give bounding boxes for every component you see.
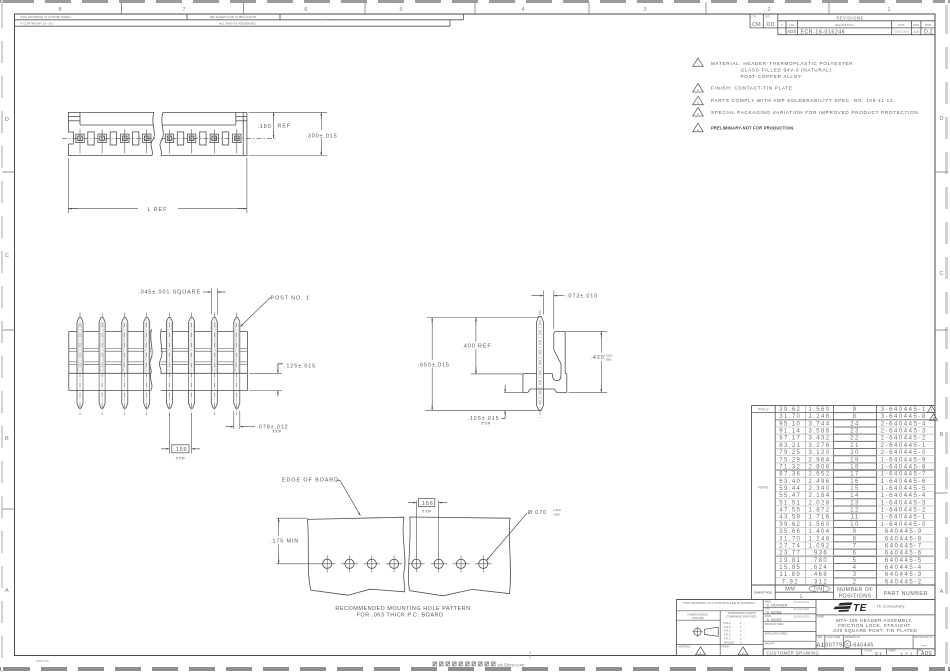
end view base with U slot <box>523 373 537 375</box>
svg-text:2: 2 <box>853 579 858 585</box>
svg-text:14: 14 <box>850 493 859 499</box>
svg-text:3 PLC: 3 PLC <box>724 633 731 637</box>
svg-text:wk.58mx.com: wk.58mx.com <box>498 662 525 667</box>
svg-text:.400 REF: .400 REF <box>462 344 492 350</box>
note 1 triangle <box>693 58 704 67</box>
svg-text:21: 21 <box>850 443 859 449</box>
svg-text:C: C <box>5 253 9 259</box>
svg-text:.156: .156 <box>420 501 434 507</box>
svg-text:640445-4: 640445-4 <box>885 565 923 571</box>
svg-text:TE Connectivity: TE Connectivity <box>877 605 905 609</box>
svg-text:FOR .063 THICK P.C. BOARD: FOR .063 THICK P.C. BOARD <box>357 613 444 619</box>
svg-text:2.184: 2.184 <box>808 493 830 499</box>
svg-text:2 PLC: 2 PLC <box>724 629 731 633</box>
svg-text:DIST: DIST <box>765 17 771 19</box>
svg-text:5: 5 <box>931 409 933 412</box>
svg-text:Ø.070: Ø.070 <box>528 510 547 516</box>
svg-text:2: 2 <box>742 651 744 655</box>
svg-text:3.432: 3.432 <box>808 436 830 442</box>
svg-text:39.62: 39.62 <box>779 522 801 528</box>
svg-text:MATERIAL: MATERIAL <box>679 645 691 648</box>
dimension .180 REF <box>249 111 328 113</box>
svg-text:5: 5 <box>697 128 699 132</box>
dimension .425 with tolerance <box>565 330 607 332</box>
svg-text:GLASS-FILLED 94V-0 (NATURAL): GLASS-FILLED 94V-0 (NATURAL) <box>741 68 832 73</box>
watermark <box>433 661 438 666</box>
svg-text:TYP: TYP <box>176 456 186 461</box>
svg-text:1.872: 1.872 <box>808 508 830 514</box>
svg-text:11.89: 11.89 <box>780 572 802 578</box>
svg-text:2-640445-3: 2-640445-3 <box>881 429 927 435</box>
bottom zone tick <box>529 651 531 659</box>
svg-text:1-640445-9: 1-640445-9 <box>881 457 927 463</box>
svg-text:NUMBER OF: NUMBER OF <box>837 587 873 593</box>
svg-text:35.66: 35.66 <box>779 529 801 535</box>
svg-text:1-640445-7: 1-640445-7 <box>881 472 927 478</box>
svg-text:POST-COPPER ALLOY: POST-COPPER ALLOY <box>741 74 802 79</box>
svg-text:NONE: NONE <box>758 486 769 490</box>
svg-text:51.51: 51.51 <box>779 500 801 506</box>
svg-text:.780: .780 <box>811 558 828 564</box>
svg-text:2: 2 <box>767 7 770 13</box>
svg-text:3-640445-1: 3-640445-1 <box>881 407 927 413</box>
note 5 triangle <box>693 123 704 132</box>
svg-text:+.010: +.010 <box>553 508 561 512</box>
dimension .125+-.015 TYP tail <box>504 391 524 393</box>
svg-text:.300±.015: .300±.015 <box>305 133 337 139</box>
svg-text:640445-3: 640445-3 <box>885 572 923 578</box>
svg-text:15.85: 15.85 <box>779 565 801 571</box>
controlled document row <box>676 610 763 612</box>
svg-text:17: 17 <box>850 472 859 478</box>
svg-text:1-640445-4: 1-640445-4 <box>881 493 927 499</box>
svg-text:67.36: 67.36 <box>779 472 801 478</box>
dimension .300+-.015 <box>249 155 328 157</box>
svg-text:RELEASED FOR PUBLICATION: RELEASED FOR PUBLICATION <box>210 15 256 19</box>
svg-text:1.248: 1.248 <box>808 414 830 420</box>
top view right end wall <box>242 112 244 155</box>
approvals column <box>763 606 816 608</box>
title block frame <box>675 600 677 656</box>
side view body edges <box>68 332 70 374</box>
svg-text:13: 13 <box>850 500 859 506</box>
svg-text:L REF: L REF <box>148 207 168 213</box>
svg-text:TYP: TYP <box>422 509 432 514</box>
svg-text:87.17: 87.17 <box>779 436 801 442</box>
svg-text:C: C <box>846 642 850 647</box>
svg-text:5:1: 5:1 <box>875 651 882 656</box>
svg-text:75.29: 75.29 <box>779 457 801 463</box>
svg-text:±: ± <box>740 630 742 633</box>
svg-text:DRAWING NO: DRAWING NO <box>845 636 860 639</box>
svg-text:D.Z: D.Z <box>924 30 933 36</box>
svg-text:39.62: 39.62 <box>779 407 801 413</box>
svg-text:1.248: 1.248 <box>808 536 830 542</box>
dimension .175 MIN <box>276 517 308 519</box>
svg-text:-: - <box>745 630 746 633</box>
dimension .078+-.012 TYP <box>233 411 235 429</box>
note 2 triangle <box>693 84 704 93</box>
size cage drawing row <box>816 634 935 636</box>
svg-text:10: 10 <box>850 522 859 528</box>
svg-text:3: 3 <box>697 101 699 105</box>
svg-text:640445-9: 640445-9 <box>885 529 923 535</box>
svg-text:3.588: 3.588 <box>808 429 830 435</box>
svg-text:CM: CM <box>752 22 761 28</box>
top view body left part <box>68 112 154 155</box>
dimension .400 REF <box>471 373 523 375</box>
svg-text:640445-8: 640445-8 <box>885 536 923 542</box>
svg-text:00779: 00779 <box>825 642 842 648</box>
svg-text:RESTRICTED TO: RESTRICTED TO <box>914 637 933 639</box>
svg-text:RECOMMENDED MOUNTING HOLE P: RECOMMENDED MOUNTING HOLE PATTERN <box>335 606 470 612</box>
svg-text:3-640445-8: 3-640445-8 <box>881 414 927 420</box>
svg-text:S. BOSS: S. BOSS <box>767 610 783 614</box>
svg-text:OTHERWISE SPECIFIED:: OTHERWISE SPECIFIED: <box>726 614 757 618</box>
svg-text:63.40: 63.40 <box>779 479 801 485</box>
svg-text:POSITIONS: POSITIONS <box>839 594 872 600</box>
svg-text:3.120: 3.120 <box>808 450 830 456</box>
top view cavities <box>88 132 94 145</box>
dimension L REF <box>67 158 69 213</box>
svg-text:.312: .312 <box>811 579 828 585</box>
svg-text:1: 1 <box>700 651 702 655</box>
svg-text:WEIGHT: WEIGHT <box>765 642 775 645</box>
svg-text:A1: A1 <box>816 642 825 649</box>
svg-text:2.808: 2.808 <box>808 464 830 470</box>
svg-text:19: 19 <box>850 457 859 463</box>
svg-text:-: - <box>745 626 746 629</box>
svg-text:640445-6: 640445-6 <box>885 551 923 557</box>
svg-text:83.21: 83.21 <box>779 443 801 449</box>
revisions block <box>749 14 751 28</box>
svg-text:1 PLC: 1 PLC <box>724 625 731 629</box>
svg-text:91.14: 91.14 <box>779 429 801 435</box>
svg-text:DD: DD <box>766 22 774 28</box>
svg-text:APPLICATION SPEC: APPLICATION SPEC <box>765 633 788 636</box>
svg-text:19.81: 19.81 <box>779 558 801 564</box>
svg-text:.936: .936 <box>811 551 828 557</box>
svg-text:7: 7 <box>853 543 858 549</box>
svg-text:LTR: LTR <box>752 17 757 19</box>
svg-text:PRODUCT SPEC: PRODUCT SPEC <box>765 623 784 626</box>
svg-text:±: ± <box>740 622 742 625</box>
svg-text:±: ± <box>740 634 742 637</box>
svg-text:11: 11 <box>851 515 860 521</box>
svg-text:SIZE: SIZE <box>817 637 823 639</box>
svg-text:71.32: 71.32 <box>779 464 801 470</box>
svg-text:.156: .156 <box>173 447 187 453</box>
svg-text:55.47: 55.47 <box>779 493 801 499</box>
svg-text:-.000: -.000 <box>553 512 561 516</box>
svg-text:5: 5 <box>853 558 858 564</box>
svg-text:7: 7 <box>182 7 185 13</box>
side view base <box>69 372 151 374</box>
svg-text:DWN: DWN <box>913 24 919 27</box>
svg-text:43.59: 43.59 <box>779 515 801 521</box>
svg-text:-: - <box>745 641 746 644</box>
svg-text:TYP: TYP <box>481 421 491 426</box>
svg-text:POST NO. 1: POST NO. 1 <box>271 296 310 302</box>
svg-text:6: 6 <box>853 551 858 557</box>
svg-text:.425: .425 <box>591 355 605 361</box>
svg-text:-640445: -640445 <box>851 642 874 648</box>
svg-text:22: 22 <box>850 436 859 442</box>
end view post <box>537 316 544 322</box>
svg-text:DATE: DATE <box>898 24 905 27</box>
svg-text:D: D <box>5 117 9 123</box>
svg-text:4: 4 <box>853 565 858 571</box>
svg-text:23.77: 23.77 <box>779 551 801 557</box>
svg-text:6: 6 <box>304 7 307 13</box>
note 3 triangle <box>693 96 704 105</box>
svg-text:01-NOV-2002: 01-NOV-2002 <box>794 608 810 611</box>
svg-text:A: A <box>940 589 944 595</box>
svg-text:1: 1 <box>697 63 699 67</box>
svg-text:ANGLES: ANGLES <box>724 640 735 644</box>
svg-text:B: B <box>5 436 9 442</box>
svg-text:8: 8 <box>853 536 858 542</box>
svg-text:9: 9 <box>853 407 858 413</box>
svg-text:SHEET: SHEET <box>888 651 896 653</box>
projection symbol <box>694 628 701 635</box>
svg-text:S. BOSS: S. BOSS <box>767 618 783 622</box>
zone ticks left <box>3 171 15 173</box>
svg-text:INCHES: INCHES <box>692 616 704 620</box>
svg-text:3.276: 3.276 <box>808 443 830 449</box>
board holes <box>323 559 332 568</box>
svg-text:0 PLC: 0 PLC <box>724 621 731 625</box>
svg-text:.073±.010: .073±.010 <box>566 294 598 300</box>
top view recess walls <box>79 112 81 125</box>
svg-text:CUSTOMER DRAWING: CUSTOMER DRAWING <box>767 650 820 655</box>
svg-text:4: 4 <box>521 7 525 13</box>
svg-text:ADS: ADS <box>787 29 796 34</box>
note 4 triangle <box>693 108 704 117</box>
svg-text:27.74: 27.74 <box>779 543 801 549</box>
svg-text:POS.2: POS.2 <box>758 408 769 412</box>
svg-text:1-640445-3: 1-640445-3 <box>881 500 927 506</box>
svg-text:31.70: 31.70 <box>779 414 801 420</box>
top view body right part <box>161 112 247 155</box>
svg-text:1-640445-5: 1-640445-5 <box>881 486 927 492</box>
unpublished legal strip <box>15 19 464 21</box>
zone ticks top <box>121 3 123 15</box>
svg-text:4: 4 <box>697 112 699 116</box>
svg-text:2.652: 2.652 <box>808 472 830 478</box>
table header band <box>775 591 833 593</box>
svg-text:1.092: 1.092 <box>808 543 830 549</box>
end view friction lock wall <box>554 331 565 373</box>
svg-text:18: 18 <box>850 464 859 470</box>
svg-text:FINISH: FINISH <box>722 645 730 648</box>
svg-text:MM: MM <box>785 587 795 593</box>
svg-text:95.10: 95.10 <box>779 421 801 427</box>
svg-text:-: - <box>745 637 746 640</box>
svg-text:20: 20 <box>850 450 859 456</box>
svg-text:79.25: 79.25 <box>779 450 801 456</box>
svg-text:SPECIAL PACKAGING VARIATION FO: SPECIAL PACKAGING VARIATION FOR IMPROVED… <box>711 110 918 115</box>
svg-text:640445-7: 640445-7 <box>885 543 923 549</box>
svg-text:- - -: - - - <box>325 15 332 19</box>
dimensions cell <box>719 611 721 656</box>
svg-text:MATERIAL: HEADER-THERMOPLASTIC: MATERIAL: HEADER-THERMOPLASTIC POLYESTER <box>711 61 853 66</box>
side view break lines <box>150 329 153 391</box>
dimension .156 TYP boxed <box>169 414 171 454</box>
svg-text:1.560: 1.560 <box>808 522 830 528</box>
svg-text:FINISH: CONTACT-TIN PLATE: FINISH: CONTACT-TIN PLATE <box>711 86 793 91</box>
top view square posts <box>76 134 84 142</box>
svg-text:2-640445-4: 2-640445-4 <box>881 421 927 427</box>
svg-text:P: P <box>781 24 783 27</box>
svg-text:.045 SQUARE POST, TIN PLAT: .045 SQUARE POST, TIN PLATED <box>832 628 918 633</box>
svg-text:.468: .468 <box>811 572 828 578</box>
svg-text:LTR: LTR <box>790 24 795 27</box>
zone ticks right <box>935 171 948 173</box>
svg-text:© COPYRIGHT 19 - BY -: © COPYRIGHT 19 - BY - <box>20 22 56 26</box>
svg-text:A-9: A-9 <box>914 30 919 34</box>
svg-text:.180: .180 <box>257 124 271 130</box>
page edge dashed trim right <box>945 0 948 672</box>
svg-text:ADS: ADS <box>921 651 932 657</box>
svg-text:.175 MIN: .175 MIN <box>270 539 299 545</box>
dimension .125+-.015 base <box>249 372 282 374</box>
svg-text:9: 9 <box>853 529 858 535</box>
material finish cells <box>676 644 763 646</box>
svg-text:.125±.015: .125±.015 <box>284 363 316 369</box>
svg-text:REVISIONS: REVISIONS <box>836 15 863 20</box>
svg-text:59.44: 59.44 <box>779 486 801 492</box>
svg-text:B: B <box>940 432 944 438</box>
svg-text:31.70: 31.70 <box>779 536 801 542</box>
svg-text:1.560: 1.560 <box>808 407 830 413</box>
svg-text:D: D <box>939 116 943 122</box>
svg-text:1-640445-0: 1-640445-0 <box>881 522 927 528</box>
svg-text:01-NOV-2002: 01-NOV-2002 <box>794 615 810 618</box>
page edge dashed trim bottom <box>0 667 950 671</box>
svg-text:1: 1 <box>887 7 890 13</box>
TE logo <box>816 614 935 616</box>
page edge dashed trim top <box>0 0 950 3</box>
top view centerline <box>62 137 155 139</box>
svg-text:TE: TE <box>853 603 868 614</box>
svg-text:NAME: NAME <box>817 616 824 619</box>
svg-text:CHART POS.: CHART POS. <box>754 591 773 595</box>
svg-text:5: 5 <box>399 7 402 13</box>
svg-text:1-640445-1: 1-640445-1 <box>881 515 927 521</box>
svg-text:.650±.015: .650±.015 <box>418 362 450 368</box>
svg-text:2-640445-0: 2-640445-0 <box>881 450 927 456</box>
svg-text:01-NOV-2002: 01-NOV-2002 <box>794 601 810 604</box>
svg-text:7.92: 7.92 <box>782 579 799 585</box>
svg-text:ALL RIGHTS RESERVED.: ALL RIGHTS RESERVED. <box>219 22 257 26</box>
svg-text:PRELIMINARY-NOT FOR PRODUCTION: PRELIMINARY-NOT FOR PRODUCTION <box>711 126 793 131</box>
svg-text:±: ± <box>740 626 742 629</box>
svg-text:EDGE OF BOARD: EDGE OF BOARD <box>282 478 339 484</box>
svg-text:8: 8 <box>58 7 61 13</box>
svg-text:4 PLC: 4 PLC <box>724 636 731 640</box>
svg-text:1-640445-8: 1-640445-8 <box>881 464 927 470</box>
svg-text:APVD: APVD <box>925 24 932 27</box>
dimension .156 TYP board <box>415 501 417 557</box>
svg-text:A: A <box>5 588 9 594</box>
svg-text:THIS DRAWING IS UNPUBLISHED.: THIS DRAWING IS UNPUBLISHED. <box>20 15 72 19</box>
svg-text:DESCRIPTION: DESCRIPTION <box>835 24 854 27</box>
svg-text:PARTS COMPLY WITH AMP SOLDERAB: PARTS COMPLY WITH AMP SOLDERABILITY SPEC… <box>711 98 895 103</box>
side view rails <box>69 331 77 333</box>
svg-text:ECR-16-016246: ECR-16-016246 <box>801 29 846 35</box>
svg-text:2.340: 2.340 <box>808 486 830 492</box>
svg-text:.045±.001 SQUARE: .045±.001 SQUARE <box>138 290 201 296</box>
svg-text:-: - <box>745 622 746 625</box>
svg-text:16: 16 <box>850 479 859 485</box>
svg-text:2-640445-2: 2-640445-2 <box>881 436 927 442</box>
svg-text:1-640445-6: 1-640445-6 <box>881 479 927 485</box>
svg-text:2-640445-1: 2-640445-1 <box>881 443 927 449</box>
svg-text:1.716: 1.716 <box>808 515 830 521</box>
svg-text:-.000: -.000 <box>604 358 612 362</box>
svg-text:—: — <box>921 643 927 649</box>
svg-text:640445-5: 640445-5 <box>885 558 923 564</box>
svg-text:REF: REF <box>278 124 292 130</box>
svg-text:.624: .624 <box>811 565 828 571</box>
svg-text:1-640445-2: 1-640445-2 <box>881 508 927 514</box>
svg-text:47.55: 47.55 <box>779 508 801 514</box>
side view posts <box>77 318 83 330</box>
svg-text:3: 3 <box>853 572 858 578</box>
table row lines <box>752 412 936 414</box>
dimension .650+-.015 <box>427 317 539 319</box>
svg-text:SCALE: SCALE <box>865 650 873 653</box>
svg-text:3: 3 <box>643 7 646 13</box>
svg-text:2: 2 <box>697 88 699 92</box>
svg-text:15DEC2016: 15DEC2016 <box>894 30 910 34</box>
dimension .073+-.010 <box>542 291 544 315</box>
svg-text:TYP: TYP <box>272 429 282 434</box>
svg-text:C: C <box>939 271 943 277</box>
svg-text:THIS DRAWING IS A CONTROLLED D: THIS DRAWING IS A CONTROLLED DOCUMENT. <box>683 601 756 605</box>
svg-text:CAGE CODE: CAGE CODE <box>826 636 840 639</box>
customer drawing row <box>763 649 862 656</box>
svg-text:±: ± <box>740 637 742 640</box>
svg-text:15: 15 <box>850 486 859 492</box>
svg-text:12: 12 <box>850 508 859 514</box>
svg-text:24: 24 <box>850 421 859 427</box>
page edge dashed trim left <box>1 0 4 672</box>
svg-text:L: L <box>800 594 804 600</box>
svg-text:PART NUMBER: PART NUMBER <box>884 591 928 597</box>
svg-text:1.404: 1.404 <box>808 529 830 535</box>
board view left piece <box>308 517 405 595</box>
svg-text:23: 23 <box>850 429 859 435</box>
svg-text:-: - <box>745 634 746 637</box>
svg-text:±: ± <box>740 641 742 644</box>
svg-text:640445-2: 640445-2 <box>885 579 923 585</box>
svg-text:2.028: 2.028 <box>808 500 830 506</box>
svg-text:3.744: 3.744 <box>808 421 830 427</box>
svg-text:8: 8 <box>853 414 858 420</box>
svg-text:2.964: 2.964 <box>808 457 830 463</box>
parts table <box>751 405 753 599</box>
svg-text:4805 (3/11): 4805 (3/11) <box>36 659 49 663</box>
svg-text:2.496: 2.496 <box>808 479 830 485</box>
board view right piece <box>409 517 511 596</box>
